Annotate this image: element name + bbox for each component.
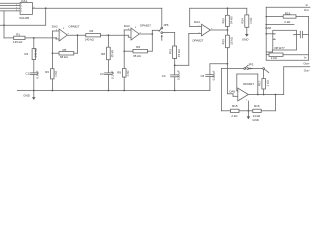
svg-text:R6: R6 — [136, 45, 140, 49]
wire R1 to DA2 — [25, 37, 56, 39]
resistor R16 14 kOhm — [253, 104, 262, 118]
wire rail from DA1 output — [32, 7, 161, 9]
wire R4 to DA3 — [101, 34, 129, 36]
wire input line 4 — [0, 10, 20, 12]
wire down to R8 — [107, 35, 109, 47]
wire bottom divider — [221, 110, 230, 112]
wire node to DA4 plus — [175, 64, 189, 66]
wire feedback return to left — [0, 24, 46, 26]
svg-text:65 kΩ: 65 kΩ — [133, 54, 141, 58]
svg-text:DA6: DA6 — [265, 26, 271, 30]
svg-text:R4: R4 — [90, 29, 94, 33]
svg-text:In: In — [306, 3, 309, 7]
ground GND under R14 — [242, 27, 249, 41]
svg-text:R13: R13 — [221, 39, 225, 45]
op-amp DA2 OPA827 — [52, 25, 80, 42]
svg-text:0.22 µF: 0.22 µF — [177, 70, 181, 80]
ground bus — [17, 90, 210, 92]
resistor R2 140 kOhm — [24, 47, 37, 59]
svg-text:R16: R16 — [254, 104, 260, 108]
node C5 tee — [227, 63, 229, 65]
svg-text:14 kΩ: 14 kΩ — [253, 114, 261, 118]
svg-text:0.1 µF: 0.1 µF — [110, 71, 114, 79]
svg-text:DA4: DA4 — [194, 20, 200, 24]
wire DA3 minus feedback — [124, 29, 131, 31]
wire output up to JP6 — [152, 29, 159, 31]
wire DA5 pin1 to divider — [247, 101, 249, 111]
resistor R18 2 kOhm — [269, 53, 283, 60]
op-amp DA5 OPA827 — [229, 82, 254, 102]
svg-text:OPA827: OPA827 — [68, 25, 79, 29]
svg-text:R5: R5 — [63, 48, 67, 52]
svg-text:In: In — [304, 56, 307, 60]
node R11 C4 DA4 — [174, 64, 176, 66]
svg-text:GND: GND — [252, 118, 258, 122]
svg-text:Out: Out — [304, 8, 309, 12]
svg-text:C2: C2 — [100, 72, 104, 76]
wire R19 right down — [296, 16, 309, 18]
ground GND under DA5 — [247, 111, 259, 122]
wire R15 to R16 — [239, 110, 253, 112]
wire tap down — [45, 8, 47, 25]
resistor R14 1 kOhm — [240, 15, 252, 27]
wire JP3 to R17 — [249, 68, 263, 70]
svg-text:GND: GND — [242, 38, 248, 42]
wire R9 to bus — [123, 77, 125, 90]
svg-text:8: 8 — [63, 28, 65, 30]
wire input branch down — [3, 11, 5, 38]
resistor R5 68 kOhm — [59, 48, 74, 59]
svg-text:0.1 µF: 0.1 µF — [35, 70, 39, 78]
svg-text:C1: C1 — [26, 72, 30, 76]
svg-text:Out–: Out– — [304, 68, 311, 72]
svg-text:C5: C5 — [201, 74, 205, 78]
op-amp DA4 OPA827 — [192, 20, 213, 43]
svg-text:R3: R3 — [45, 70, 49, 74]
svg-text:140 kΩ: 140 kΩ — [85, 38, 95, 42]
svg-text:GND: GND — [23, 94, 29, 98]
svg-text:+: + — [60, 40, 62, 42]
wire R11 to node — [174, 59, 176, 75]
wire DA2 output — [67, 34, 86, 36]
node R2 junction — [33, 37, 35, 39]
svg-text:1 kΩ: 1 kΩ — [54, 70, 58, 77]
wire rail corner to R14 — [246, 8, 248, 15]
svg-text:R19: R19 — [285, 11, 291, 15]
wire R19 line — [266, 16, 283, 18]
wire Out terminal DA6 — [266, 59, 308, 61]
svg-text:OPA827: OPA827 — [140, 23, 151, 27]
jumper JP6 — [159, 8, 169, 40]
node R8 junction — [108, 34, 110, 36]
node rail tap — [45, 7, 47, 9]
wire R3 to bus — [51, 79, 53, 91]
wire pin stub left — [266, 33, 273, 35]
wire rail to DA4 minus — [189, 8, 191, 26]
resistor R12 24 kOhm — [221, 15, 233, 26]
wire rail right section — [190, 7, 247, 9]
svg-text:2 kΩ: 2 kΩ — [284, 20, 291, 24]
wire to R1 — [4, 37, 14, 39]
svg-text:R8: R8 — [101, 52, 105, 56]
svg-text:R1: R1 — [16, 32, 20, 36]
svg-text:2 kΩ: 2 kΩ — [271, 56, 278, 60]
wire JP6 to R11 — [163, 32, 175, 34]
wire C1 to bus — [33, 75, 35, 91]
svg-text:Out+: Out+ — [303, 61, 310, 65]
svg-text:1 kΩ: 1 kΩ — [266, 79, 270, 86]
svg-text:OPA827: OPA827 — [243, 82, 254, 86]
svg-text:+: + — [202, 35, 204, 37]
wire R6 left — [124, 50, 133, 52]
capacitor C5 0.22 — [201, 64, 228, 91]
node crossing — [3, 24, 5, 26]
svg-text:15 kΩ: 15 kΩ — [110, 49, 114, 57]
wire DA5 output — [248, 94, 283, 96]
resistor R3 1 kOhm — [45, 69, 58, 79]
svg-text:R12: R12 — [221, 18, 225, 24]
svg-text:140 kΩ: 140 kΩ — [13, 40, 23, 44]
op-amp DA3 OPA827 — [124, 23, 151, 40]
svg-text:68 kΩ: 68 kΩ — [60, 55, 68, 59]
wire down to R2 — [33, 38, 35, 49]
svg-text:INA105: INA105 — [20, 16, 30, 20]
resistor R19 2 kOhm — [283, 11, 296, 23]
wire DA6 left vertical — [265, 7, 267, 60]
svg-text:OPA827: OPA827 — [192, 39, 203, 43]
pin labels DA1 inputs — [16, 4, 18, 11]
wire rail to R12 — [226, 8, 228, 15]
wire down to R9 — [123, 51, 125, 68]
resistor R15 2 kOhm — [231, 104, 239, 118]
wire R13 down column — [226, 48, 228, 94]
svg-text:C4: C4 — [162, 74, 166, 78]
wire DA4 output — [210, 29, 227, 31]
wire DA6 mid — [266, 24, 294, 26]
wire R2 to C1 — [33, 60, 35, 73]
node rail R12 — [227, 7, 229, 9]
node R9 tap — [123, 50, 125, 52]
wire In terminal — [266, 6, 310, 8]
IC DA1 INA105 — [20, 0, 36, 20]
resistor R11 15 kOhm — [168, 46, 181, 59]
wire input line 1 — [0, 2, 20, 4]
svg-text:1 kΩ: 1 kΩ — [126, 70, 130, 77]
capacitor C1 0.1 — [26, 70, 40, 78]
IC DA6 box — [265, 26, 296, 50]
wire JP3 line left leg — [220, 69, 222, 111]
wire R5 right up to output — [74, 52, 78, 54]
wire R16 up to output — [261, 110, 275, 112]
wire DA3 output — [139, 33, 152, 35]
svg-text:JP3: JP3 — [248, 62, 254, 66]
wire R18 joins — [266, 54, 269, 56]
svg-text:15 kΩ: 15 kΩ — [229, 36, 233, 44]
svg-text:24 kΩ: 24 kΩ — [229, 16, 233, 24]
svg-text:2 kΩ: 2 kΩ — [231, 114, 238, 118]
svg-text:DA2: DA2 — [52, 25, 58, 29]
resistor R1 140 kOhm — [13, 32, 25, 43]
svg-text:DA5: DA5 — [229, 90, 235, 94]
capacitor C4 0.22 — [162, 70, 181, 80]
svg-text:6: 6 — [68, 33, 70, 35]
svg-text:+: + — [132, 39, 134, 41]
svg-text:DA1: DA1 — [21, 0, 27, 3]
wire R8 to C2 — [107, 60, 109, 73]
wire input line 3 — [0, 7, 20, 9]
wire box bottom stub — [272, 50, 274, 52]
wire R5 left — [52, 52, 59, 54]
resistor R9 1 kOhm — [117, 69, 129, 78]
wire R6 right up to output — [148, 50, 153, 52]
svg-text:0.22 µF: 0.22 µF — [212, 70, 216, 80]
wire R17 to output — [263, 89, 265, 95]
svg-text:R2: R2 — [24, 52, 28, 56]
svg-text:JP6: JP6 — [163, 23, 169, 27]
svg-text:R9: R9 — [117, 71, 121, 75]
ground GND left — [23, 91, 35, 100]
wire output up to Out- — [283, 67, 285, 95]
svg-text:OP1177: OP1177 — [274, 46, 285, 50]
svg-text:8: 8 — [135, 27, 137, 29]
svg-text:1: 1 — [246, 100, 248, 102]
wire R12 to R13 — [226, 27, 228, 36]
capacitor DA6 right — [297, 31, 309, 38]
resistor R8 15 kOhm — [101, 47, 114, 60]
svg-text:R11: R11 — [168, 49, 172, 54]
resistor R6 65 kOhm — [133, 45, 148, 58]
wire DA2 minus feedback — [52, 30, 59, 32]
wire to DA5 plus — [227, 93, 233, 95]
svg-text:R14: R14 — [240, 18, 244, 24]
svg-text:1 kΩ: 1 kΩ — [249, 17, 253, 24]
node bus gnd — [33, 90, 35, 92]
svg-text:140 kΩ: 140 kΩ — [34, 47, 38, 57]
svg-text:15 kΩ: 15 kΩ — [177, 49, 181, 57]
wire down to R3 — [51, 53, 53, 68]
resistor R13 15 kOhm — [221, 35, 233, 48]
svg-text:R15: R15 — [232, 104, 238, 108]
resistor R17 1 kOhm — [257, 79, 269, 90]
wire DA5 feedback — [237, 90, 238, 92]
wire C4 to bus — [174, 77, 176, 91]
node R3 tap — [52, 52, 54, 54]
jumper JP3 — [244, 62, 254, 69]
capacitor C2 0.1 — [100, 71, 114, 79]
wire input line 2 — [0, 5, 20, 7]
wire C2 to bus — [107, 75, 109, 91]
resistor R4 140 kOhm — [85, 29, 101, 41]
